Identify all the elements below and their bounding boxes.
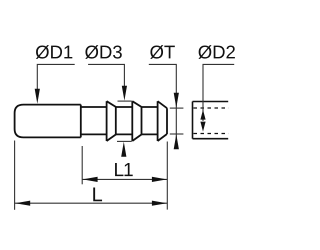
barb tooth 1 bottom ramp bbox=[107, 134, 116, 141]
arrowhead ØD3 top bbox=[122, 86, 127, 101]
leader ØD3 bbox=[88, 64, 124, 86]
hose inner bore bottom (dashed) bbox=[194, 133, 229, 135]
barb tooth 3 top ramp bbox=[158, 101, 167, 108]
tick ØD3 top bbox=[118, 100, 132, 102]
arrowhead ØT top bbox=[174, 93, 179, 108]
barb tooth 3 face bbox=[157, 101, 159, 141]
barb tooth 1 back step bbox=[115, 107, 117, 134]
tick ØT bottom bbox=[170, 133, 184, 135]
label L bbox=[93, 187, 102, 201]
label ØD1 bbox=[36, 45, 73, 59]
arrowhead L1 left bbox=[83, 177, 98, 182]
label ØD2 bbox=[198, 45, 234, 59]
extension line end (shared L/L1) bbox=[166, 142, 168, 210]
fitting body (plug cylinder with rounded left end) bbox=[15, 105, 81, 138]
neck 3 bottom bbox=[142, 133, 158, 135]
barb tooth 3 bottom ramp bbox=[158, 134, 167, 141]
neck 3 top bbox=[142, 106, 158, 108]
label L1 bbox=[115, 163, 133, 176]
neck 2 bottom bbox=[116, 133, 132, 135]
arrowhead L right bbox=[152, 201, 167, 206]
leader ØD2 bbox=[203, 64, 234, 121]
dimension line L bbox=[15, 202, 168, 204]
dimension line L1 bbox=[82, 178, 167, 180]
arrowhead L left bbox=[15, 201, 30, 206]
extension line step (L1) bbox=[81, 146, 83, 184]
tick ØD3 bottom bbox=[117, 140, 132, 142]
hose cross-section outer top bbox=[193, 101, 229, 103]
barb tooth 2 face bbox=[131, 101, 133, 141]
neck 1 bottom bbox=[81, 133, 107, 135]
hose inner bore top (dashed) bbox=[194, 107, 229, 109]
barb tooth 2 bottom ramp bbox=[132, 134, 141, 141]
arrowhead L1 right bbox=[152, 177, 167, 182]
extension line left (L) bbox=[14, 141, 16, 210]
arrowhead ØD3 bottom bbox=[121, 142, 126, 157]
barb tooth 2 top ramp bbox=[132, 101, 141, 107]
arrowhead ØD1 bbox=[35, 89, 40, 104]
barb tooth 2 back step bbox=[141, 107, 143, 134]
body end step face bbox=[80, 105, 82, 138]
arrowhead ØD2 up bbox=[200, 110, 205, 120]
arrowhead ØT bottom bbox=[174, 134, 179, 149]
fitting end face bbox=[166, 108, 168, 134]
barb tooth 1 top ramp bbox=[107, 101, 116, 107]
barb tooth 1 face bbox=[106, 101, 108, 141]
neck 1 top bbox=[81, 106, 107, 108]
label ØT bbox=[150, 45, 175, 59]
leader ØT bbox=[149, 64, 177, 149]
leader ØD1 bbox=[37, 64, 74, 90]
label ØD3 bbox=[85, 45, 122, 59]
neck 2 top bbox=[116, 106, 132, 108]
hose cross-section outer bottom bbox=[193, 138, 229, 140]
tick ØT top bbox=[170, 107, 184, 109]
arrowhead ØD2 down bbox=[200, 122, 205, 132]
hose cross-section left end bbox=[192, 102, 194, 139]
